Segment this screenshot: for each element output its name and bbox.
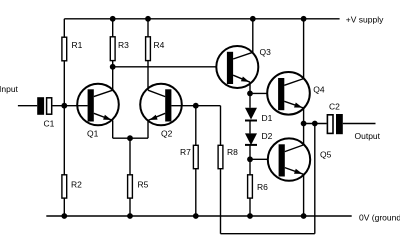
svg-text:0V (ground): 0V (ground) [359,212,400,222]
wire input lead [18,105,37,107]
capacitor C1 [37,97,51,115]
wire Q2 emitter down [147,120,149,138]
wire output node to C2 [304,123,327,125]
svg-text:Q5: Q5 [320,150,332,160]
wire feedback loop riser to output node [314,124,316,234]
wire +V supply rail [64,18,339,20]
wire R3 top [112,19,114,37]
diode D1 [245,108,257,121]
wire R7 top [195,106,197,145]
wire node B to R6 top [249,159,251,174]
wire emitter bus [113,137,148,139]
wire node A to D1 anode [249,93,251,107]
svg-text:D1: D1 [262,113,273,123]
node rail Q4 collector [301,16,307,22]
svg-text:C2: C2 [329,102,340,112]
node ground R5 [127,213,133,219]
wire node B to Q5 base [250,158,268,160]
svg-text:R5: R5 [138,179,149,189]
transistor Q1 [77,84,119,126]
wire node to R2 top [63,106,65,175]
wire D1 cathode to D2 anode [249,120,251,133]
transistor Q5 [268,138,310,180]
node output Q4e Q5c [301,121,307,127]
resistor R5 [128,175,133,198]
transistor Q2 [140,84,182,126]
resistor R1 [62,37,67,61]
svg-text:R6: R6 [257,182,268,192]
transistor Q4 [267,72,310,115]
svg-text:R1: R1 [72,40,83,50]
wire R4 bottom to Q2 collector [147,61,149,90]
wire R4 top [147,19,149,37]
wire C1 to Q1 base [52,105,87,107]
wire R3 bottom [112,61,114,67]
node ground R7 [193,213,199,219]
node emitter bus [127,135,133,141]
wire feedback loop bottom [221,233,315,235]
wire R1 bottom to node [63,61,65,106]
resistor R4 [146,37,151,61]
node output feedback [312,121,318,127]
wire Q1 emitter down [112,120,114,138]
resistor R3 [110,37,115,61]
capacitor C2 [327,114,342,134]
resistor R6 [248,175,253,198]
wire bus to R5 [129,138,131,174]
svg-text:R4: R4 [154,40,165,50]
wire R8 bottom to feedback loop [220,169,222,234]
wire 0V ground rail [46,215,351,217]
resistor R2 [62,175,67,198]
svg-text:Q4: Q4 [313,84,325,94]
svg-text:R7: R7 [180,147,191,157]
wire R7 bottom to ground [195,169,197,216]
svg-text:R2: R2 [71,179,82,189]
node R3 Q3 base [110,64,116,70]
wire Q5 emitter to ground [303,174,305,216]
transistor Q3 [216,46,258,88]
node Q2 base R7 [193,103,199,109]
svg-text:D2: D2 [262,131,273,141]
svg-text:Q2: Q2 [161,128,173,138]
wire Q4 emitter to output node [303,108,305,124]
node A Q3e D1 Q4b [247,91,253,97]
wire Q4 collector to rail [303,19,305,79]
wire R6 bottom to ground [249,198,251,216]
wire node to Q3 base [113,66,217,68]
wire Q2 base to R8 corner [171,105,220,107]
node ground R6 [247,213,253,219]
wire node A to Q4 base [250,92,267,94]
wire Q3 emitter to node A [249,82,251,93]
svg-text:Q3: Q3 [260,47,272,57]
node rail Q3 collector [250,16,256,22]
wire Q5 collector to output node [303,124,305,145]
svg-text:R8: R8 [227,147,238,157]
wire C2 to output lead [343,123,376,125]
node ground Q5 emitter [301,213,307,219]
resistor R8 [218,145,223,168]
svg-text:Input: Input [0,84,19,94]
diode D2 [245,133,257,145]
wire R5 bottom to ground [129,198,131,216]
resistor R7 [193,145,198,168]
wire Q3 collector to rail [252,19,254,53]
node rail R4 [145,16,151,22]
node ground R2 [61,213,67,219]
node Q1 base [61,103,67,109]
wire Q1 collector [112,67,114,90]
svg-text:Q1: Q1 [87,128,99,138]
node B D2 R6 Q5b [247,156,253,162]
wire D2 cathode to node B [249,145,251,159]
svg-text:R3: R3 [118,40,129,50]
wire R8 top [220,106,222,145]
svg-text:Output: Output [355,131,381,141]
node rail R3 [110,16,116,22]
svg-text:+V supply: +V supply [346,14,384,24]
svg-text:C1: C1 [44,118,55,128]
wire R2 bottom to ground [63,198,65,216]
wire R1 top [63,19,65,37]
